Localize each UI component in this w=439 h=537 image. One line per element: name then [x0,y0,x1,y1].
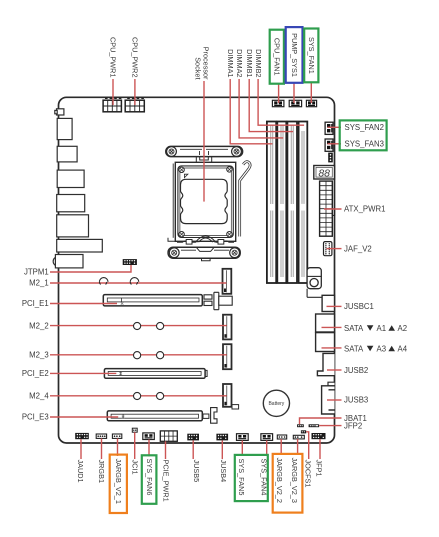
wire PCI_E2 [50,372,116,374]
io port B1 [57,118,72,139]
svg-text:M2_4: M2_4 [29,392,49,401]
wire JUSB5 [192,440,194,459]
DIMM slots [267,122,307,284]
label box SYS_FAN5 SYS_FAN4 (green) [235,455,268,501]
svg-text:SYS_FAN6: SYS_FAN6 [145,459,154,496]
wire SATA A3 A4 [322,347,342,349]
rear IO ports [53,109,102,268]
io port B2 [57,146,77,162]
wire Processor Socket [203,81,205,202]
debug LED display 88 [314,166,335,180]
label box CPU_FAN1 (green) [270,30,284,84]
svg-text:JARGB_V2_2: JARGB_V2_2 [275,458,284,503]
SATA12 triangles and ids [367,324,408,354]
connector SATA A3 A4 [316,333,335,352]
wire JUSBC1 [327,305,342,307]
connector JAF_V2 [324,242,332,256]
svg-text:SYS_FAN3: SYS_FAN3 [345,140,384,149]
battery [263,390,289,416]
wire PCIE_PWR1 [165,441,167,459]
wire DIMMB1 [249,79,293,132]
connector PCIE_PWR1 [160,431,177,441]
io port B3 [57,170,84,187]
svg-text:CPU_PWR1: CPU_PWR1 [109,37,118,78]
fan header CPU_FAN1 [272,100,284,106]
board outline [59,97,335,443]
PCI_E3 x marker [122,416,125,419]
connector JTPM1 [123,259,137,265]
svg-text:A2: A2 [398,324,408,333]
wire CPU_PWR1 [112,79,114,105]
connector JUSB4 [216,434,228,441]
small header below SYS_FAN3 [328,153,333,163]
top rotated labels [109,33,316,80]
wire ATX_PWR1 [324,208,342,210]
wire SYS_FAN4 [266,440,268,456]
CPU socket assembly [166,146,250,260]
fan header PUMP_SYS1 [289,100,301,106]
M2_4 connector [223,384,232,407]
svg-text:Processor: Processor [201,47,210,80]
wire SYS_FAN3 [328,143,342,145]
connector JUSBC1 [322,295,334,311]
svg-text:SYS_FAN2: SYS_FAN2 [345,123,384,132]
wire DIMMB2 [258,79,304,125]
M2_3 connector [223,344,232,369]
PCI_E2 slot [104,369,207,379]
wire JRGB1 [101,438,103,459]
wire CPU_PWR2 [134,79,136,105]
svg-text:A3: A3 [377,345,387,354]
left labels [22,268,50,422]
wire JFP1 [319,439,321,459]
wire JUSB2 [327,369,342,371]
socket frame inner [178,166,233,238]
svg-text:PUMP_SYS1: PUMP_SYS1 [290,33,299,77]
corner screw TL [179,167,184,172]
wire SYS_FAN1 [310,83,312,103]
svg-text:JOCFS1: JOCFS1 [304,460,313,488]
svg-text:DIMMB2: DIMMB2 [254,49,263,77]
wire JAUD1 [80,439,82,459]
wire M2_2 [50,325,227,327]
svg-text:PCIE_PWR1: PCIE_PWR1 [162,460,171,502]
label box SYS_FAN2 SYS_FAN3 (green) [340,120,387,150]
fan header SYS_FAN2 [325,122,333,134]
svg-text:JUSB5: JUSB5 [192,460,201,483]
wire JUSB4 [221,440,223,459]
label box JARGB_V2_1 (orange) [110,455,127,513]
corner screw BR [227,232,232,237]
M2_2 connector [223,315,232,340]
wire M2_4 [50,395,227,397]
PCI_E1 x marker [121,302,124,305]
wire DIMMA2 [239,79,283,138]
svg-text:CPU_PWR2: CPU_PWR2 [130,37,139,78]
connector CPU_PWR2 [125,98,144,111]
label box JARGB_V2_2 JARGB_V2_3 (orange) [273,454,303,513]
socket lever [240,162,250,237]
wire M2_1 [50,282,226,284]
svg-text:SYS_FAN1: SYS_FAN1 [307,37,316,74]
connector JFP1 [312,433,326,439]
io port B4 [57,195,85,212]
fan header SYS_FAN4 [261,434,273,441]
svg-text:A4: A4 [398,345,408,354]
PCI_E2 x marker [119,372,122,375]
svg-text:JARGB_V2_3: JARGB_V2_3 [290,458,299,503]
wire JARGB_V2_1 [117,438,119,456]
wire JUSB3 [327,399,342,401]
svg-text:JCI1: JCI1 [131,460,140,475]
wire PCI_E3 [50,416,118,418]
svg-text:JUSB2: JUSB2 [344,366,368,375]
svg-text:SYS_FAN5: SYS_FAN5 [237,459,246,496]
wire JCI1 [134,432,136,459]
wire SYS_FAN6 [148,440,150,457]
dimm slot DIMMB1 [287,122,297,284]
svg-text:JUSBC1: JUSBC1 [344,302,374,311]
jumper JBAT1 [297,424,304,427]
corner screw BL [179,232,184,237]
io notch [57,109,64,115]
edge notch [328,382,335,386]
svg-text:M2_2: M2_2 [29,321,49,330]
M2_1 connector [223,269,232,294]
wire JARGB_V2_2 [280,439,282,455]
wire SYS_FAN2 [328,126,342,128]
svg-text:JFP1: JFP1 [314,460,323,477]
connector ATX_PWR1 [320,181,335,236]
svg-text:JUSB3: JUSB3 [344,396,368,405]
svg-text:JAUD1: JAUD1 [76,460,85,483]
corner screw TR [227,167,232,172]
connector JFP2 [309,424,320,427]
svg-text:JARGB_V2_1: JARGB_V2_1 [114,459,123,504]
svg-text:CPU_FAN1: CPU_FAN1 [273,38,282,76]
wire M2_3 [50,354,227,356]
svg-text:JUSB4: JUSB4 [219,460,228,483]
svg-text:M2_3: M2_3 [29,351,49,360]
svg-text:JAF_V2: JAF_V2 [344,244,372,253]
wire SYS_FAN5 [241,440,243,456]
connector JAUD1 [75,433,89,439]
svg-text:SYS_FAN4: SYS_FAN4 [260,459,269,496]
socket feet [186,240,192,245]
M2_2 screw holes [134,322,164,329]
right labels [344,123,385,431]
svg-text:PCI_E3: PCI_E3 [22,413,49,422]
svg-text:A1: A1 [377,324,387,333]
fan header SYS_FAN5 [237,434,249,441]
wire DIMMA1 [230,79,272,144]
fan header SYS_FAN3 [325,139,333,151]
label box SYS_FAN6 (green) [142,455,157,504]
M2_3 screw holes [134,352,164,359]
io port B6 [57,239,103,252]
socket frame outer [175,162,235,241]
wire JOCFS1 [306,432,309,459]
wire PCI_E1 [50,303,117,305]
connector JARGB_V2_1 [112,434,121,438]
connector JCI1 [132,428,137,432]
jumper JOCFS1 [301,430,306,433]
connector CPU_PWR1 [103,98,121,111]
dimm slot DIMMB2 [299,122,308,284]
label box PUMP_SYS1 (blue) [286,27,303,83]
wire PUMP_SYS1 [293,84,295,104]
svg-text:88: 88 [318,167,330,179]
connector JARGB_V2_3 [293,435,304,439]
wire CPU_FAN1 [278,84,280,103]
PCI_E1 slot [103,292,232,309]
svg-text:M2_1: M2_1 [29,279,49,288]
connector JARGB_V2_2 [277,435,286,439]
svg-text:PCI_E2: PCI_E2 [22,369,49,378]
pin1 marker [184,174,188,178]
svg-text:DIMMA2: DIMMA2 [235,49,244,77]
connector JUSB2 [317,353,334,375]
dimm slot DIMMA1 [267,122,276,284]
svg-text:ATX_PWR1: ATX_PWR1 [344,205,385,214]
dimm slot DIMMA2 [277,122,286,284]
svg-text:JFP2: JFP2 [344,422,362,431]
svg-text:Battery: Battery [268,401,284,407]
socket top bar [166,146,243,156]
red leader lines [50,79,342,459]
connector JRGB1 [96,434,106,438]
M2_4 screw holes [134,392,164,399]
bottom rotated labels [76,458,323,504]
wire JFP2 [319,425,341,427]
PCI_E3 slot [107,405,238,424]
svg-text:DIMMA1: DIMMA1 [226,49,235,77]
svg-text:JTPM1: JTPM1 [24,268,49,277]
svg-text:Socket: Socket [193,57,202,79]
socket center cutout [181,179,228,223]
fan header SYS_FAN1 [306,100,316,106]
connector JUSB5 [187,434,199,441]
socket bottom bar [168,247,240,261]
clip notch below top bar [196,157,211,163]
svg-text:JRGB1: JRGB1 [97,460,106,484]
M2_1 screw holes [99,278,138,285]
io port B7 audio [53,257,56,265]
svg-text:SATA: SATA [344,324,364,333]
fan header SYS_FAN6 [143,433,155,440]
wire JAF_V2 [327,248,342,250]
wire JARGB_V2_3 [297,439,299,455]
wire JBAT1 [300,418,342,424]
socket bottom spring [177,241,234,242]
io port B5 [57,215,89,237]
svg-text:PCI_E1: PCI_E1 [22,299,49,308]
label box SYS_FAN1 (green) [304,29,318,83]
connector JUSB3 [322,386,335,414]
svg-text:SATA: SATA [344,345,364,354]
svg-text:DIMMB1: DIMMB1 [245,49,254,77]
wire SATA A1 A2 [322,326,342,328]
connector SATA A1 A2 [316,314,335,332]
standoff bracket top-right [307,268,322,298]
wire JTPM1 [50,265,131,272]
